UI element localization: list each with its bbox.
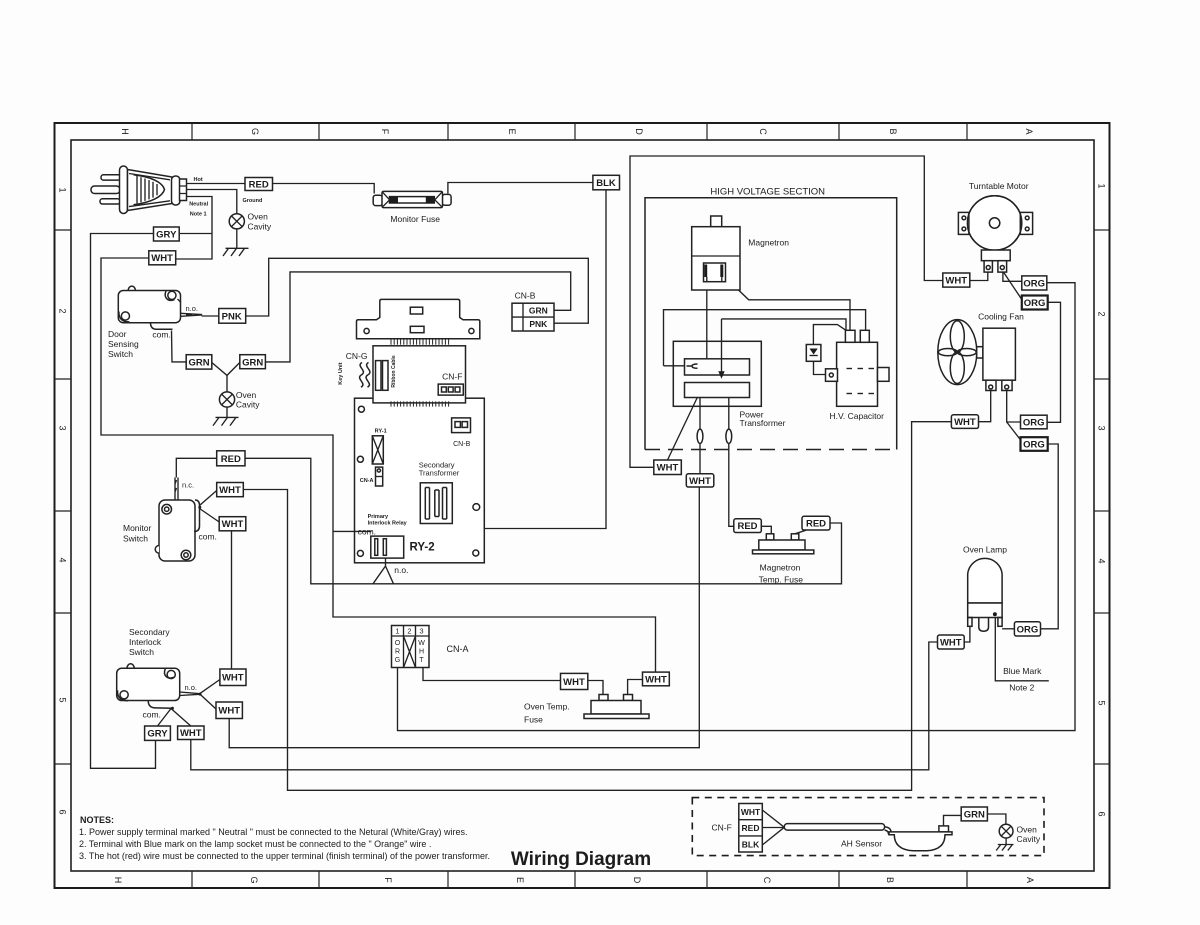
svg-text:GRN: GRN (964, 809, 985, 820)
svg-text:PNK: PNK (222, 312, 242, 323)
svg-text:D: D (634, 128, 644, 135)
svg-text:PNK: PNK (529, 319, 548, 329)
svg-text:Note 1: Note 1 (190, 212, 207, 218)
svg-text:Temp. Fuse: Temp. Fuse (759, 575, 804, 585)
svg-text:3: 3 (419, 627, 423, 636)
svg-text:C: C (762, 877, 772, 884)
svg-text:D: D (632, 877, 642, 884)
svg-text:Cavity: Cavity (1017, 834, 1041, 844)
svg-text:Ground: Ground (243, 198, 263, 204)
svg-text:CN-A: CN-A (447, 644, 469, 654)
svg-text:com.: com. (199, 532, 217, 542)
svg-text:F: F (380, 129, 390, 135)
svg-text:Secondary: Secondary (129, 627, 170, 637)
svg-text:R: R (395, 649, 400, 656)
svg-text:Switch: Switch (108, 349, 133, 359)
svg-text:5: 5 (58, 697, 68, 702)
svg-text:A: A (1025, 877, 1035, 883)
svg-text:Key Unit: Key Unit (338, 362, 344, 384)
svg-text:T: T (419, 657, 424, 664)
svg-text:GRY: GRY (156, 229, 177, 240)
svg-text:Cooling Fan: Cooling Fan (978, 311, 1024, 321)
svg-text:H: H (120, 128, 130, 135)
svg-text:RY-1: RY-1 (375, 429, 387, 435)
svg-text:com.: com. (358, 527, 376, 537)
svg-text:RED: RED (742, 823, 760, 833)
svg-text:2: 2 (407, 627, 411, 636)
svg-text:Interlock: Interlock (129, 637, 162, 647)
svg-text:Note 2: Note 2 (1009, 683, 1034, 693)
svg-text:Turntable Motor: Turntable Motor (969, 181, 1029, 191)
svg-text:Switch: Switch (129, 647, 154, 657)
svg-text:B: B (888, 128, 898, 134)
svg-text:Cavity: Cavity (248, 221, 272, 231)
svg-text:ORG: ORG (1023, 417, 1045, 428)
svg-text:Magnetron: Magnetron (748, 238, 789, 248)
svg-text:WHT: WHT (218, 706, 240, 717)
svg-text:Transformer: Transformer (740, 418, 786, 428)
svg-text:Cavity: Cavity (236, 399, 260, 409)
svg-text:n.o.: n.o. (185, 683, 198, 692)
svg-text:RED: RED (249, 179, 269, 190)
svg-text:O: O (395, 640, 401, 647)
svg-text:RED: RED (221, 454, 241, 465)
svg-text:1: 1 (395, 627, 399, 636)
svg-text:GRY: GRY (147, 729, 168, 740)
svg-text:Oven: Oven (236, 390, 257, 400)
svg-text:1. Power supply terminal marke: 1. Power supply terminal marked " Neutra… (79, 827, 468, 837)
svg-text:NOTES:: NOTES: (80, 815, 114, 825)
svg-text:Oven: Oven (1017, 824, 1038, 834)
svg-text:ORG: ORG (1017, 624, 1039, 635)
svg-text:WHT: WHT (219, 485, 241, 496)
svg-text:WHT: WHT (563, 677, 585, 688)
svg-text:6: 6 (1097, 811, 1107, 816)
svg-text:1: 1 (58, 187, 68, 192)
svg-text:WHT: WHT (222, 519, 244, 530)
svg-text:Ribbon Cable: Ribbon Cable (391, 355, 397, 387)
svg-text:WHT: WHT (222, 673, 244, 684)
svg-text:Door: Door (108, 329, 127, 339)
svg-text:4: 4 (58, 557, 68, 562)
svg-text:n.o.: n.o. (394, 565, 408, 575)
svg-text:HIGH VOLTAGE SECTION: HIGH VOLTAGE SECTION (710, 187, 825, 198)
svg-text:F: F (383, 877, 393, 883)
svg-text:CN-B: CN-B (453, 441, 470, 448)
svg-text:CN-F: CN-F (442, 371, 462, 381)
svg-text:n.c.: n.c. (182, 481, 194, 490)
svg-text:Hot: Hot (194, 177, 203, 183)
svg-text:Primary: Primary (368, 514, 389, 520)
svg-text:BLK: BLK (742, 839, 760, 849)
svg-text:2: 2 (58, 308, 68, 313)
svg-text:ORG: ORG (1023, 439, 1045, 450)
svg-text:WHT: WHT (954, 417, 976, 428)
svg-text:WHT: WHT (180, 728, 202, 739)
svg-text:CN-B: CN-B (515, 291, 536, 301)
svg-text:E: E (515, 877, 525, 883)
svg-text:Switch: Switch (123, 534, 148, 544)
svg-text:WHT: WHT (940, 637, 962, 648)
svg-text:GRN: GRN (188, 357, 209, 368)
svg-text:ORG: ORG (1023, 278, 1045, 289)
svg-text:G: G (250, 128, 260, 135)
svg-text:n.o.: n.o. (186, 304, 199, 313)
svg-text:2. Terminal with Blue mark on: 2. Terminal with Blue mark on the lamp s… (79, 839, 431, 849)
svg-text:E: E (507, 128, 517, 134)
svg-text:WHT: WHT (151, 253, 173, 264)
svg-text:B: B (885, 877, 895, 883)
svg-text:Transformer: Transformer (419, 469, 460, 478)
svg-text:A: A (1024, 128, 1034, 134)
svg-text:Monitor: Monitor (123, 523, 152, 533)
svg-text:WHT: WHT (657, 463, 679, 474)
svg-text:Oven Temp.: Oven Temp. (524, 702, 570, 712)
svg-text:2: 2 (1097, 311, 1107, 316)
svg-text:1: 1 (1097, 183, 1107, 188)
svg-text:W: W (418, 640, 425, 647)
svg-text:Neutral: Neutral (189, 202, 208, 208)
svg-text:Oven Lamp: Oven Lamp (963, 545, 1007, 555)
svg-text:WHT: WHT (645, 674, 667, 685)
svg-text:WHT: WHT (945, 276, 967, 287)
svg-text:Monitor Fuse: Monitor Fuse (390, 214, 440, 224)
svg-text:com.: com. (143, 710, 161, 720)
svg-text:CN-G: CN-G (346, 351, 368, 361)
svg-text:3: 3 (1097, 425, 1107, 430)
svg-text:RED: RED (806, 519, 826, 530)
svg-text:ORG: ORG (1024, 298, 1046, 309)
svg-text:com.: com. (152, 330, 170, 340)
svg-text:H: H (419, 649, 424, 656)
svg-text:BLK: BLK (596, 178, 616, 189)
svg-text:Blue Mark: Blue Mark (1003, 666, 1042, 676)
svg-text:5: 5 (1097, 700, 1107, 705)
svg-text:H: H (113, 877, 123, 884)
svg-text:WHT: WHT (689, 476, 711, 487)
svg-text:AH Sensor: AH Sensor (841, 839, 882, 849)
svg-text:C: C (758, 128, 768, 135)
svg-text:GRN: GRN (242, 357, 263, 368)
svg-text:Sensing: Sensing (108, 339, 139, 349)
svg-text:Fuse: Fuse (524, 715, 543, 725)
svg-text:3: 3 (58, 425, 68, 430)
svg-text:Wiring Diagram: Wiring Diagram (511, 849, 651, 870)
svg-text:3. The hot (red) wire must be: 3. The hot (red) wire must be connected … (79, 851, 490, 861)
svg-text:RY-2: RY-2 (410, 542, 435, 554)
svg-text:GRN: GRN (529, 306, 548, 316)
svg-text:CN-A: CN-A (360, 478, 374, 484)
svg-text:CN-F: CN-F (712, 823, 732, 833)
svg-text:WHT: WHT (741, 807, 761, 817)
svg-text:G: G (249, 876, 259, 883)
svg-text:RED: RED (737, 521, 757, 532)
svg-text:4: 4 (1097, 558, 1107, 563)
svg-text:Oven: Oven (248, 212, 269, 222)
svg-text:Magnetron: Magnetron (760, 563, 801, 573)
svg-text:6: 6 (58, 809, 68, 814)
svg-text:G: G (395, 657, 400, 664)
svg-text:H.V. Capacitor: H.V. Capacitor (830, 411, 885, 421)
